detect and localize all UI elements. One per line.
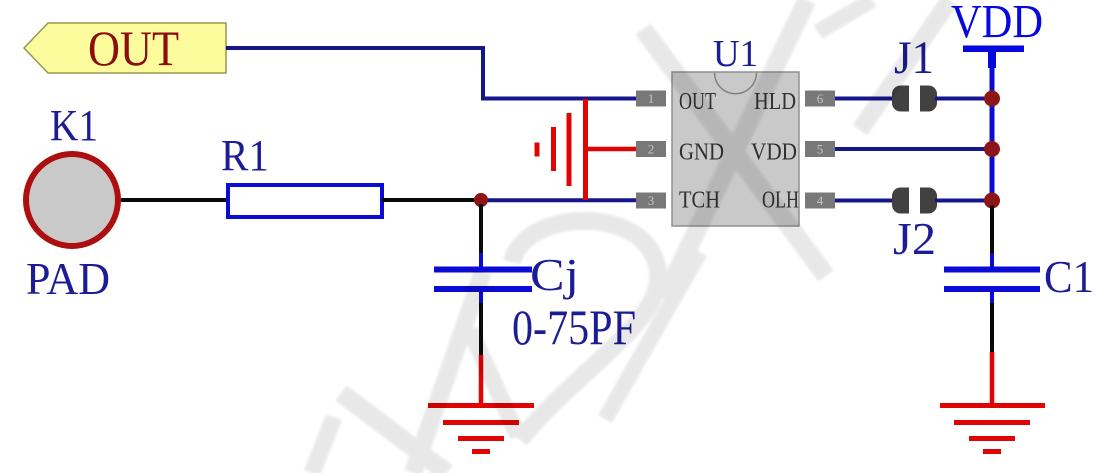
- wire K1 to R1: [121, 198, 228, 202]
- capacitor Cj pin stub top: [479, 253, 483, 268]
- wire R1 to node A: [382, 198, 481, 202]
- svg-text:K1: K1: [50, 101, 98, 150]
- op IC U1 notch: [715, 73, 757, 94]
- pin 4 pad: [805, 193, 835, 209]
- wire C1 to ground (red): [990, 352, 995, 404]
- junction dot row1: [984, 91, 1000, 107]
- capacitor C1 plate bottom: [944, 286, 1040, 292]
- capacitor C1 pin stub bottom: [990, 290, 994, 303]
- wire U1 pin 6 to J1: [835, 97, 894, 101]
- pin 5 pad: [805, 141, 835, 157]
- capacitor Cj plate bottom: [434, 286, 532, 292]
- ground under Cj: [428, 406, 534, 452]
- jumper J1 left half: [892, 86, 909, 112]
- wire U1 pin 5 to VDD rail: [835, 147, 992, 151]
- jumper J2 right half: [920, 188, 937, 214]
- svg-text:PAD: PAD: [26, 253, 110, 304]
- jumper J1 right half: [920, 86, 937, 112]
- VDD rail wire: [990, 66, 995, 203]
- svg-text:VDD: VDD: [951, 0, 1043, 49]
- wire Cj to ground (red): [479, 355, 484, 404]
- capacitor C1 plate top: [944, 267, 1040, 273]
- pin 2 pad: [636, 141, 666, 157]
- svg-text:OUT: OUT: [88, 20, 179, 76]
- resistor R1: [228, 185, 382, 217]
- ground near U1 pin 2 (rotated): [537, 99, 586, 200]
- wire ground to U1 pin 2: [585, 147, 638, 152]
- svg-text:4: 4: [817, 193, 824, 208]
- port flag OUT: [24, 23, 226, 73]
- wire C1 to ground (black): [990, 303, 994, 352]
- wire J1 to VDD rail: [935, 97, 992, 101]
- pin 3 pad: [636, 193, 666, 209]
- svg-text:J2: J2: [893, 213, 936, 264]
- junction dot row3: [984, 193, 1000, 209]
- wire rail to C1 (black): [990, 206, 994, 255]
- svg-text:5: 5: [817, 142, 824, 157]
- touch pad K1: [26, 154, 118, 246]
- watermark: [0, 0, 1, 1]
- svg-text:VDD: VDD: [751, 140, 797, 166]
- svg-text:2: 2: [648, 142, 655, 157]
- wire U1 pin 4 to J2: [835, 199, 894, 203]
- svg-text:Cj: Cj: [530, 249, 579, 300]
- VDD bar: [963, 46, 1024, 53]
- capacitor C1 pin stub top: [990, 253, 994, 268]
- wire node A to U1 pin 3: [481, 198, 638, 202]
- svg-text:U1: U1: [713, 33, 758, 75]
- jumper J2 left half: [892, 188, 909, 214]
- capacitor Cj plate top: [434, 267, 532, 273]
- svg-text:6: 6: [817, 91, 824, 106]
- svg-text:C1: C1: [1044, 251, 1094, 302]
- wire OUT flag to U1 pin 1: [226, 48, 636, 99]
- op IC U1 body: [672, 72, 799, 226]
- wire J2 to VDD rail: [935, 199, 992, 203]
- wire Cj to ground (black): [479, 303, 483, 355]
- ground under C1: [940, 406, 1045, 452]
- pin 6 pad: [805, 91, 835, 107]
- junction node A: [474, 193, 488, 207]
- svg-text:R1: R1: [221, 131, 269, 180]
- wire node A to Cj: [479, 204, 483, 254]
- svg-text:3: 3: [648, 193, 655, 208]
- junction dot row2: [984, 141, 1000, 157]
- capacitor Cj pin stub bottom: [479, 290, 483, 303]
- svg-text:1: 1: [648, 91, 655, 106]
- pin 1 pad: [636, 91, 666, 107]
